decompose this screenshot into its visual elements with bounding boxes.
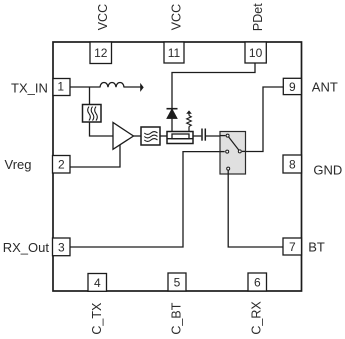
pin 4 bbox=[88, 274, 107, 292]
pin 12 bbox=[90, 42, 112, 64]
svg-text:9: 9 bbox=[289, 80, 296, 94]
switch port RX throw bbox=[226, 150, 229, 153]
pin 2 bbox=[53, 156, 71, 174]
svg-text:VCC: VCC bbox=[96, 4, 110, 30]
wire stub switch TX throw to box edge bbox=[220, 135, 226, 137]
wire pin10 PDet to detector diode bbox=[172, 63, 255, 108]
arrowhead on TX line bbox=[140, 83, 144, 92]
amplifier U1 bbox=[113, 123, 134, 150]
wire pin1 TX_IN to inductor bbox=[70, 86, 101, 88]
svg-text:3: 3 bbox=[58, 240, 65, 254]
svg-text:ANT: ANT bbox=[312, 80, 338, 95]
svg-text:RX_Out: RX_Out bbox=[3, 240, 50, 255]
wire stub switch BT port to box edge bbox=[227, 169, 229, 175]
wire switch RX port to pin3 RX_Out bbox=[70, 152, 225, 247]
svg-text:TX_IN: TX_IN bbox=[11, 80, 48, 95]
wire SAW filter F1 output to amplifier input bbox=[90, 122, 114, 136]
directional coupler bbox=[167, 132, 193, 144]
svg-text:12: 12 bbox=[94, 46, 108, 60]
svg-text:1: 1 bbox=[57, 80, 64, 94]
wire capacitor to switch TX port bbox=[206, 135, 226, 137]
detector diode D1 bbox=[167, 109, 178, 119]
inductor L1 bbox=[100, 83, 124, 88]
switch port TX throw bbox=[226, 134, 229, 137]
pin 10 bbox=[245, 42, 266, 63]
svg-text:7: 7 bbox=[289, 240, 296, 254]
wire diode anode to coupler coupled line bbox=[171, 119, 173, 134]
IC package body bbox=[53, 42, 302, 291]
svg-text:5: 5 bbox=[174, 276, 181, 290]
svg-text:8: 8 bbox=[289, 157, 296, 171]
svg-text:11: 11 bbox=[168, 46, 181, 60]
svg-text:C_RX: C_RX bbox=[250, 301, 264, 335]
wire ANT pin9 to switch common bbox=[241, 87, 283, 152]
svg-text:6: 6 bbox=[254, 276, 261, 290]
svg-text:C_TX: C_TX bbox=[90, 302, 104, 335]
wire Vreg pin2 to amplifier bias bbox=[70, 145, 120, 168]
pin 7 bbox=[283, 238, 302, 255]
antenna switch SW1 bbox=[220, 132, 246, 175]
svg-text:VCC: VCC bbox=[169, 4, 183, 30]
switch common pole bbox=[238, 150, 241, 153]
svg-text:Vreg: Vreg bbox=[5, 157, 32, 172]
pin 5 bbox=[168, 273, 186, 291]
wire stub switch common to box edge bbox=[242, 150, 246, 152]
svg-text:2: 2 bbox=[58, 158, 65, 172]
pin 8 bbox=[283, 155, 302, 173]
pin 6 bbox=[248, 273, 267, 291]
svg-text:BT: BT bbox=[308, 239, 325, 254]
wire inductor to arrowhead bbox=[124, 86, 141, 88]
svg-text:C_BT: C_BT bbox=[170, 302, 184, 334]
svg-text:4: 4 bbox=[94, 276, 101, 290]
pin 3 bbox=[53, 238, 71, 256]
wire coupler to capacitor C1 bbox=[193, 135, 201, 137]
svg-text:GND: GND bbox=[313, 162, 342, 177]
switch port BT throw bbox=[227, 167, 230, 170]
capacitor C1 bbox=[202, 129, 205, 141]
pin 11 bbox=[164, 42, 184, 63]
wire stub switch RX throw to box edge bbox=[220, 151, 225, 153]
SAW filter F1 bbox=[83, 105, 102, 123]
wire SAW filter F2 to coupler bbox=[160, 135, 167, 137]
svg-text:10: 10 bbox=[249, 46, 263, 60]
wire switch BT port to pin7 BT bbox=[228, 170, 283, 247]
wire junction down to SAW filter F1 bbox=[89, 87, 91, 105]
termination resistor R1 with arrow bbox=[186, 110, 192, 134]
wire amplifier output to SAW filter F2 bbox=[134, 135, 142, 137]
pin 1 bbox=[53, 79, 70, 96]
switch lever bbox=[228, 136, 240, 152]
pin 9 bbox=[283, 78, 301, 94]
svg-text:PDet: PDet bbox=[251, 3, 265, 31]
SAW filter F2 bbox=[141, 127, 160, 145]
